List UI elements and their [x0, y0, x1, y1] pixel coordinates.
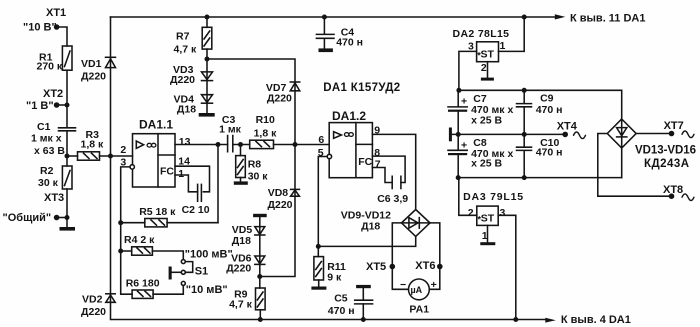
svg-text:R4 2 к: R4 2 к [124, 234, 155, 246]
svg-text:Д220: Д220 [268, 199, 293, 211]
svg-text:ST: ST [481, 49, 495, 61]
svg-text:R2: R2 [40, 165, 54, 177]
svg-text:"10 мВ": "10 мВ" [186, 284, 228, 296]
svg-text:1 мк х: 1 мк х [31, 133, 62, 145]
svg-text:470 н: 470 н [536, 146, 563, 158]
svg-text:1: 1 [500, 40, 506, 52]
svg-text:XT5: XT5 [366, 261, 386, 273]
svg-text:"10 В": "10 В" [23, 21, 57, 33]
svg-text:4,7 к: 4,7 к [229, 299, 253, 311]
svg-text:VD1: VD1 [81, 58, 102, 70]
svg-text:R10: R10 [256, 114, 275, 126]
svg-text:C2 10: C2 10 [182, 204, 210, 216]
svg-text:30 к: 30 к [248, 171, 269, 183]
svg-text:R7: R7 [176, 31, 190, 43]
svg-text:270 к: 270 к [37, 61, 63, 73]
svg-text:2: 2 [468, 207, 474, 219]
svg-text:13: 13 [179, 136, 191, 148]
svg-text:+: + [431, 279, 437, 291]
svg-text:DA3 79L15: DA3 79L15 [463, 191, 523, 203]
svg-text:ST: ST [481, 213, 495, 225]
svg-text:6: 6 [318, 134, 324, 146]
svg-text:C6 3,9: C6 3,9 [377, 193, 408, 205]
svg-text:1: 1 [178, 168, 184, 180]
svg-text:x 25 В: x 25 В [471, 114, 502, 126]
svg-text:5: 5 [318, 147, 324, 159]
svg-text:К выв. 4 DA1: К выв. 4 DA1 [561, 314, 631, 326]
svg-text:Д18: Д18 [232, 235, 251, 247]
svg-text:Д220: Д220 [170, 74, 195, 86]
svg-text:*: * [478, 215, 482, 225]
svg-text:R6 180: R6 180 [126, 278, 160, 290]
svg-text:"Общий": "Общий" [3, 212, 52, 224]
svg-text:C9: C9 [540, 93, 554, 105]
svg-text:+: + [461, 140, 467, 152]
svg-text:470 н: 470 н [336, 36, 363, 48]
svg-text:К выв. 11 DA1: К выв. 11 DA1 [570, 12, 646, 24]
svg-text:XT4: XT4 [557, 120, 578, 132]
svg-text:30 к: 30 к [38, 177, 59, 189]
svg-text:*: * [477, 51, 481, 61]
svg-text:DA1 К157УД2: DA1 К157УД2 [323, 82, 400, 94]
svg-text:3: 3 [120, 157, 126, 169]
svg-text:XT8: XT8 [663, 184, 683, 196]
svg-text:S1: S1 [195, 266, 208, 278]
svg-text:1 мк: 1 мк [219, 124, 242, 136]
svg-text:Д220: Д220 [81, 71, 106, 83]
svg-text:Д18: Д18 [361, 221, 380, 233]
svg-text:2: 2 [481, 62, 487, 74]
svg-text:"1 В": "1 В" [26, 100, 54, 112]
svg-text:3: 3 [500, 207, 506, 219]
svg-text:FC: FC [358, 156, 372, 168]
svg-text:4,7 к: 4,7 к [174, 44, 198, 56]
svg-text:R5 18 к: R5 18 к [139, 206, 176, 218]
svg-text:1,8 к: 1,8 к [81, 139, 105, 151]
svg-text:"100 мВ": "100 мВ" [185, 249, 233, 261]
svg-text:1: 1 [482, 230, 488, 242]
svg-text:VD2: VD2 [82, 294, 103, 306]
svg-text:Д220: Д220 [226, 263, 251, 275]
svg-text:x 63 В: x 63 В [34, 145, 65, 157]
svg-text:XT6: XT6 [415, 260, 435, 272]
svg-text:14: 14 [178, 156, 190, 168]
svg-text:DA1.1: DA1.1 [139, 118, 173, 132]
svg-text:9: 9 [374, 124, 380, 136]
svg-text:XT2: XT2 [43, 88, 63, 100]
svg-text:µA: µA [411, 285, 423, 295]
svg-text:x 25 В: x 25 В [471, 157, 502, 169]
svg-text:470 н: 470 н [536, 104, 563, 116]
svg-text:PA1: PA1 [409, 303, 429, 315]
svg-text:XT7: XT7 [664, 120, 684, 132]
svg-text:8: 8 [374, 147, 380, 159]
svg-text:2: 2 [120, 144, 126, 156]
svg-text:Д220: Д220 [81, 306, 106, 318]
svg-text:C5: C5 [334, 292, 348, 304]
svg-text:КД243А: КД243А [644, 158, 689, 170]
svg-text:Д18: Д18 [177, 104, 196, 116]
svg-text:XT1: XT1 [46, 7, 66, 19]
svg-text:C1: C1 [37, 121, 51, 133]
svg-text:470 н: 470 н [328, 305, 355, 317]
svg-text:XT3: XT3 [44, 192, 64, 204]
svg-text:1,8 к: 1,8 к [254, 128, 278, 140]
svg-text:+: + [461, 96, 467, 108]
svg-text:−: − [400, 279, 406, 291]
svg-text:9 к: 9 к [327, 272, 342, 284]
svg-text:DA2 78L15: DA2 78L15 [453, 28, 510, 40]
svg-text:DA1.2: DA1.2 [332, 109, 366, 123]
svg-text:Д220: Д220 [267, 93, 292, 105]
svg-text:FC: FC [160, 165, 174, 177]
svg-text:R8: R8 [248, 159, 262, 171]
svg-text:3: 3 [468, 40, 474, 52]
svg-text:7: 7 [375, 158, 381, 170]
svg-text:VD8: VD8 [268, 187, 289, 199]
svg-text:VD13-VD16: VD13-VD16 [635, 144, 696, 156]
